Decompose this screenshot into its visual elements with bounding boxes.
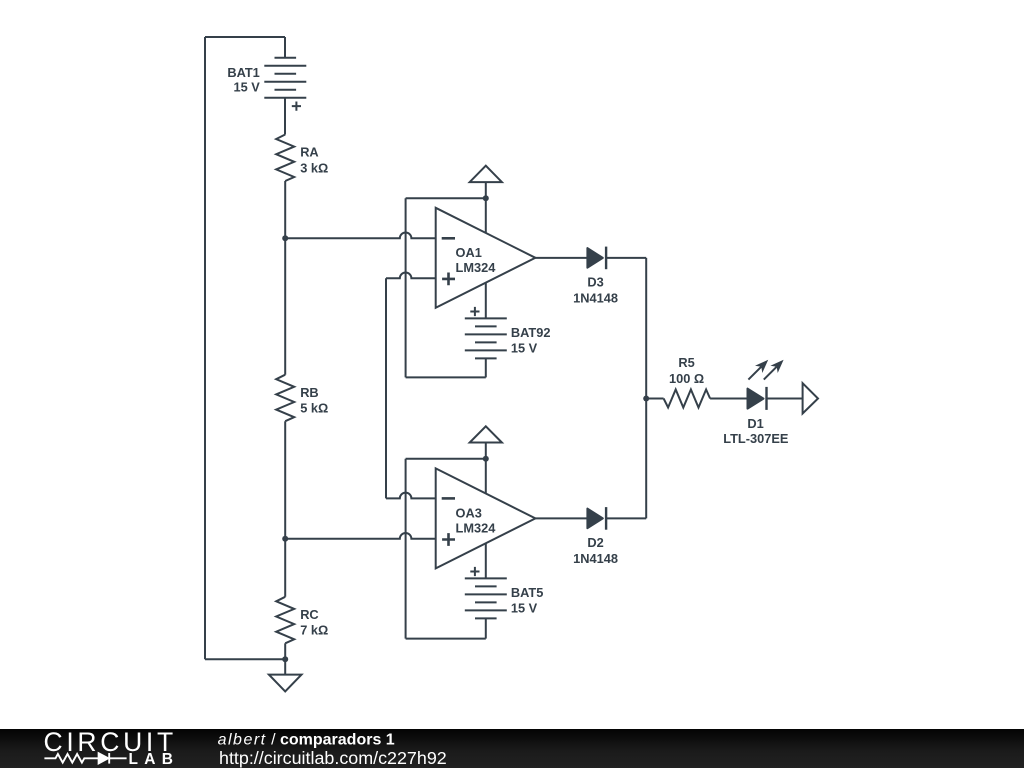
wire D1 to output terminal bbox=[767, 398, 803, 400]
wire OA1 output to D3 bbox=[535, 257, 587, 259]
wire bottom rail to ground node bbox=[205, 658, 285, 660]
battery BAT1 15 V bbox=[264, 37, 306, 135]
wire node A to OA1 inverting input (hop over vertical wire) bbox=[285, 233, 436, 239]
resistor RA 3 kΩ bbox=[276, 135, 294, 182]
svg-text:1N4148: 1N4148 bbox=[573, 290, 618, 305]
svg-text:3 kΩ: 3 kΩ bbox=[300, 160, 328, 175]
wire OA3 output to D2 bbox=[535, 517, 587, 519]
svg-text:15 V: 15 V bbox=[511, 601, 538, 616]
node V+ junction OA1 bbox=[483, 195, 489, 201]
svg-text:R5: R5 bbox=[678, 355, 694, 370]
wire OA3 inverting input (hop over vertical wire) bbox=[386, 493, 436, 499]
power supply VCC symbol for OA1 bbox=[470, 166, 502, 182]
battery BAT5 15 V bbox=[465, 567, 507, 639]
ground bbox=[284, 659, 286, 674]
wire RC to ground node bbox=[284, 643, 286, 659]
node A junction bbox=[282, 235, 288, 241]
wire output bus vertical D3/D2 to node R5 bbox=[645, 258, 647, 519]
diode D3 1N4148 bbox=[587, 247, 606, 270]
wire RB to node B bbox=[284, 421, 286, 539]
svg-text:BAT92: BAT92 bbox=[511, 325, 551, 340]
svg-text:http://circuitlab.com/c227h92: http://circuitlab.com/c227h92 bbox=[219, 748, 447, 768]
wire OA1 left vertical rail bbox=[405, 198, 407, 377]
svg-text:15 V: 15 V bbox=[511, 340, 538, 355]
svg-text:RB: RB bbox=[300, 385, 318, 400]
battery BAT92 15 V bbox=[465, 307, 507, 378]
svg-text:LAB: LAB bbox=[129, 751, 180, 768]
wire OA1 V+ rail to feedback rail bbox=[406, 197, 486, 199]
svg-text:BAT1: BAT1 bbox=[227, 65, 259, 80]
op-amp OA3 LM324 bbox=[436, 468, 536, 568]
power supply VCC symbol for OA3 bbox=[470, 426, 502, 442]
svg-text:D3: D3 bbox=[587, 275, 603, 290]
svg-text:5 kΩ: 5 kΩ bbox=[300, 401, 328, 416]
wire OA1 V+ pin bbox=[485, 198, 487, 233]
wire OA3 left vertical rail bbox=[405, 459, 407, 639]
output terminal flag bbox=[803, 383, 818, 413]
resistor RB 5 kΩ bbox=[276, 375, 294, 422]
node B junction bbox=[282, 536, 288, 542]
wire node B to OA3 non-inverting input (hop over vertical wire) bbox=[285, 533, 436, 539]
wire top rail BAT1 to left rail bbox=[205, 36, 285, 38]
op-amp OA1 LM324 bbox=[436, 208, 536, 308]
svg-text:RA: RA bbox=[300, 145, 318, 160]
svg-text:D2: D2 bbox=[587, 535, 603, 550]
CircuitLab logo resistor-diode icon bbox=[44, 753, 126, 764]
wire OA3 V+ rail to feedback rail bbox=[406, 458, 486, 460]
wire OA1 non-inverting input down to OA3 inverting input bbox=[385, 278, 387, 498]
svg-text:15 V: 15 V bbox=[233, 80, 260, 95]
svg-text:1N4148: 1N4148 bbox=[573, 551, 618, 566]
LED D1 LTL-307EE bbox=[748, 360, 784, 410]
svg-text:LTL-307EE: LTL-307EE bbox=[723, 431, 789, 446]
svg-text:OA3: OA3 bbox=[456, 505, 482, 520]
wire R5 to D1 bbox=[710, 398, 747, 400]
svg-text:LM324: LM324 bbox=[456, 260, 497, 275]
wire node B to RC bbox=[284, 539, 286, 597]
node output bus to R5 junction bbox=[643, 396, 649, 402]
node V+ junction OA3 bbox=[483, 456, 489, 462]
resistor RC 7 kΩ bbox=[276, 597, 294, 644]
svg-text:albert / comparadors 1: albert / comparadors 1 bbox=[218, 732, 395, 749]
wire OA3 V- pin to BAT5 bbox=[485, 543, 487, 578]
wire OA3 V+ pin bbox=[485, 459, 487, 494]
wire OA1 V- pin to BAT92 bbox=[485, 283, 487, 319]
svg-text:RC: RC bbox=[300, 607, 318, 622]
wire OA3 bottom rail to BAT5 bbox=[406, 638, 486, 640]
svg-text:OA1: OA1 bbox=[456, 245, 482, 260]
wire left return rail bbox=[204, 37, 206, 659]
footer bar bbox=[0, 729, 1024, 768]
ground node junction bbox=[282, 656, 288, 662]
wire OA1 non-inverting input (hop over vertical wire) bbox=[386, 272, 436, 278]
wire D3 to output bus bbox=[606, 257, 646, 259]
svg-text:BAT5: BAT5 bbox=[511, 585, 543, 600]
svg-text:7 kΩ: 7 kΩ bbox=[300, 623, 328, 638]
diode D2 1N4148 bbox=[587, 507, 606, 530]
wire RA to node A bbox=[284, 181, 286, 238]
svg-text:100 Ω: 100 Ω bbox=[669, 371, 704, 386]
wire node to R5 bbox=[646, 398, 663, 400]
wire OA1 bottom rail to BAT92 bbox=[406, 376, 486, 378]
wire D2 to output bus bbox=[606, 517, 646, 519]
svg-text:D1: D1 bbox=[747, 416, 763, 431]
svg-text:LM324: LM324 bbox=[456, 521, 497, 536]
wire node A to RB bbox=[284, 238, 286, 374]
resistor R5 100 Ω bbox=[664, 390, 711, 408]
